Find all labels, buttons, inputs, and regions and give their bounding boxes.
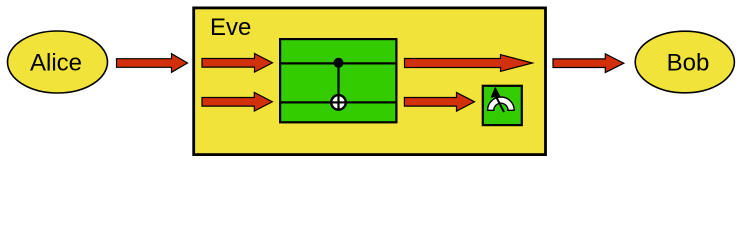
wire qubit line top	[280, 62, 397, 64]
svg-text:Bob: Bob	[667, 50, 710, 77]
wire arrow into CNOT top	[202, 54, 273, 73]
wire qubit line bottom	[280, 101, 397, 103]
wire arrow CNOT bottom to meter	[404, 93, 474, 112]
node Bob	[635, 31, 734, 93]
measurement meter M1	[483, 86, 522, 125]
box Eve	[194, 8, 546, 155]
wire arrow Eve to Bob	[553, 54, 624, 73]
wire control line vertical	[337, 63, 339, 110]
CNOT target XOR	[331, 95, 346, 110]
svg-text:Eve: Eve	[210, 14, 251, 41]
wire arrow Alice to Eve	[117, 54, 188, 73]
wire arrow into CNOT bottom	[202, 93, 272, 112]
CNOT control dot	[334, 58, 344, 68]
wire arrow CNOT top out to Bob channel	[405, 55, 533, 72]
svg-text:Alice: Alice	[30, 50, 82, 77]
CNOT gate box U1	[280, 39, 396, 122]
node Alice	[8, 31, 108, 93]
